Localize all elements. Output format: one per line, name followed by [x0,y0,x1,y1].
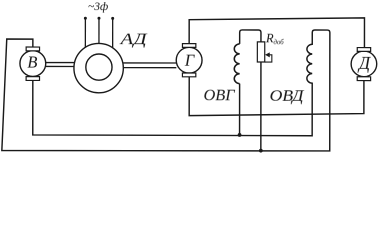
svg-text:В: В [27,53,37,72]
svg-text:АД: АД [119,31,148,48]
svg-text:доб: доб [273,39,284,46]
svg-text:Г: Г [184,51,195,70]
svg-text:~3ф: ~3ф [88,1,108,13]
svg-text:ОВД: ОВД [269,88,304,105]
svg-text:ОВГ: ОВГ [203,87,235,104]
svg-text:Д: Д [357,53,371,73]
